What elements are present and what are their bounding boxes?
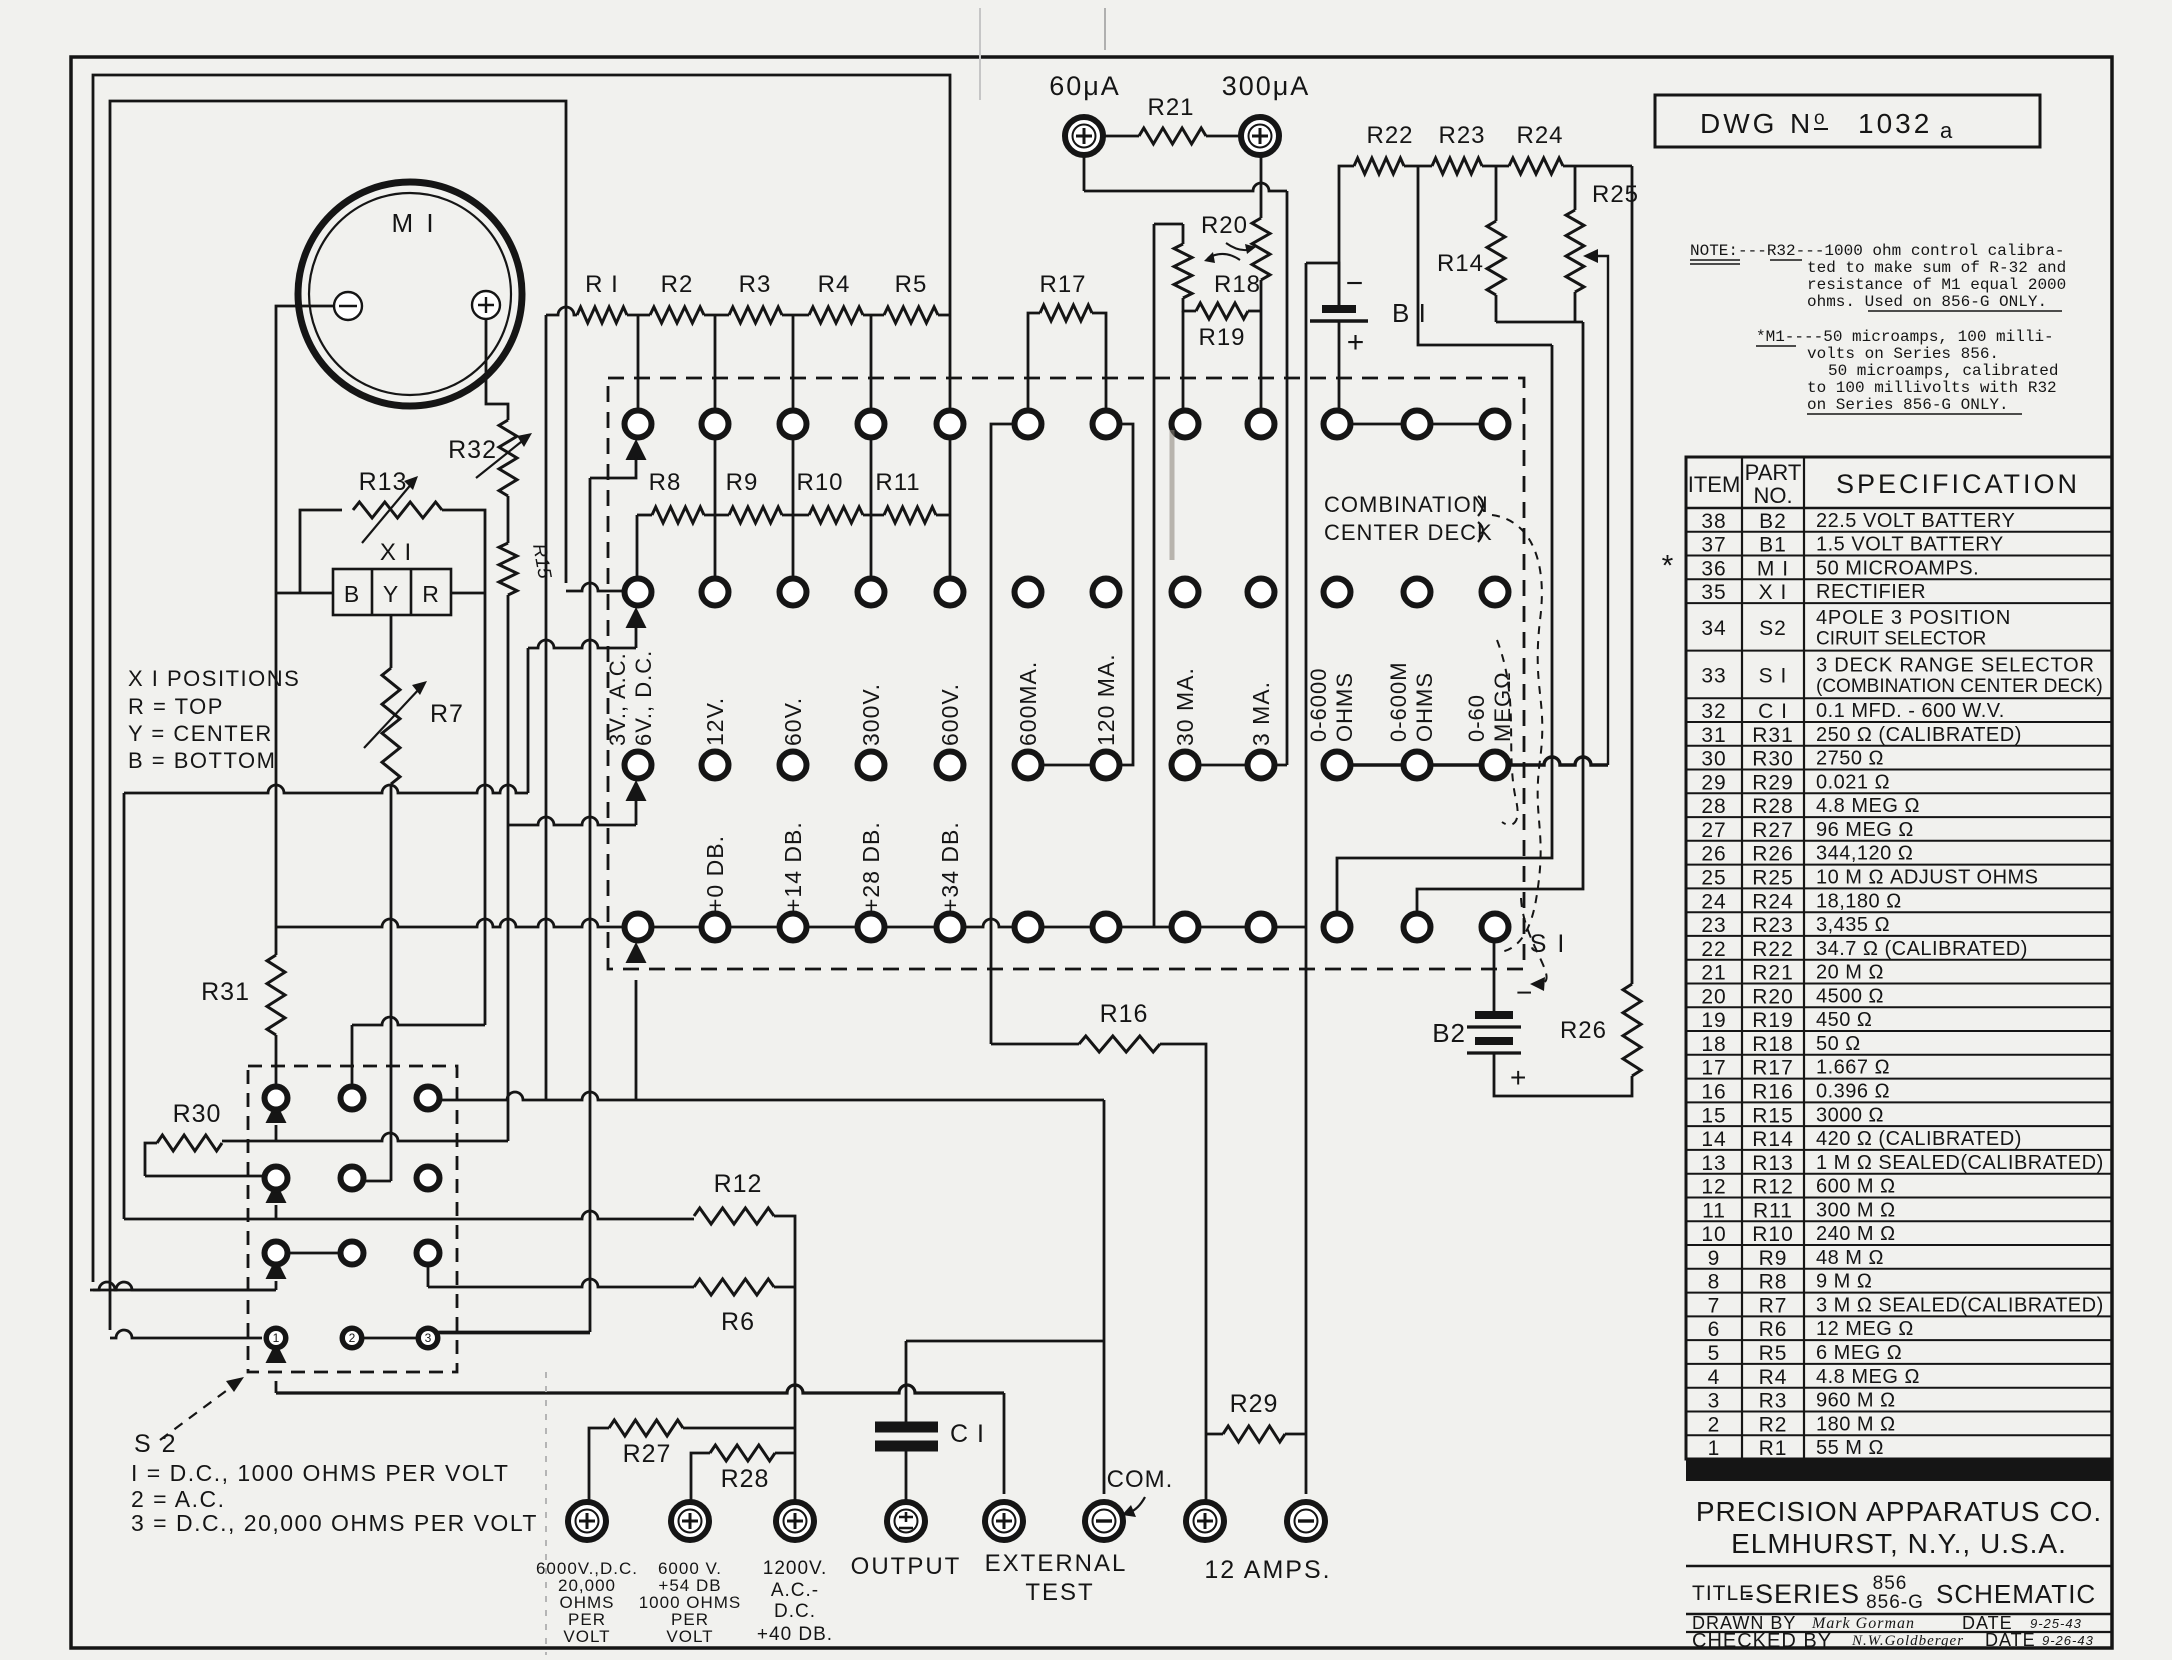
svg-text:CENTER DECK: CENTER DECK — [1324, 520, 1493, 545]
svg-text:S2: S2 — [1759, 617, 1787, 640]
svg-text:R26: R26 — [1560, 1017, 1607, 1044]
svg-text:B2: B2 — [1759, 510, 1787, 533]
svg-text:OHMS: OHMS — [1332, 672, 1357, 742]
svg-text:29: 29 — [1701, 771, 1726, 794]
wire S2 contact C row c to R6 — [427, 1267, 430, 1287]
svg-text:300 M Ω: 300 M Ω — [1816, 1199, 1896, 1221]
svg-text:R12: R12 — [1752, 1176, 1794, 1199]
svg-text:a: a — [1940, 118, 1953, 143]
svg-text:S I: S I — [1759, 664, 1788, 687]
svg-text:COMBINATION: COMBINATION — [1324, 492, 1489, 517]
scan fold marks — [979, 8, 981, 100]
svg-text:+34 DB.: +34 DB. — [937, 821, 963, 912]
resistor R29 — [1206, 1433, 1223, 1436]
rectifier X1 box — [333, 569, 451, 615]
svg-text:3000 Ω: 3000 Ω — [1816, 1104, 1884, 1126]
svg-text:17: 17 — [1701, 1057, 1726, 1080]
svg-text:CIRUIT SELECTOR: CIRUIT SELECTOR — [1816, 629, 1986, 650]
svg-text:C I: C I — [950, 1420, 985, 1448]
wire rail 124 / line A (row2 wiper bus) — [123, 793, 126, 1219]
wire S2 wiper c line — [90, 1289, 276, 1292]
wire R1-R2 junction to row1 col1 — [627, 314, 650, 317]
svg-text:R = TOP: R = TOP — [128, 694, 224, 719]
wire B1 minus to mA common — [1306, 263, 1339, 309]
svg-text:13: 13 — [1701, 1152, 1726, 1175]
svg-text:250 Ω (CALIBRATED): 250 Ω (CALIBRATED) — [1816, 724, 2022, 746]
svg-text:600 M Ω: 600 M Ω — [1816, 1176, 1896, 1198]
meter M1 — [298, 182, 522, 406]
svg-text:450 Ω: 450 Ω — [1816, 1009, 1872, 1031]
svg-text:0.021 Ω: 0.021 Ω — [1816, 771, 1890, 793]
svg-text:+0 DB.: +0 DB. — [702, 835, 728, 912]
resistor R12 — [694, 1208, 774, 1224]
resistor R16 — [991, 1043, 1079, 1046]
terminal COM — [1085, 1502, 1123, 1540]
svg-text:120 MA.: 120 MA. — [1093, 653, 1119, 746]
svg-text:R2: R2 — [1759, 1413, 1788, 1436]
wire X1 left to M1 minus rail — [276, 592, 333, 595]
svg-text:856-G: 856-G — [1866, 1592, 1924, 1613]
svg-text:volts on Series 856.: volts on Series 856. — [1807, 345, 1999, 363]
potentiometer R7 — [382, 668, 400, 784]
svg-text:1200V.: 1200V. — [763, 1558, 827, 1579]
svg-text:R23: R23 — [1752, 914, 1794, 937]
svg-text:4.8 MEG Ω: 4.8 MEG Ω — [1816, 1366, 1920, 1388]
svg-text:R3: R3 — [1759, 1390, 1788, 1413]
svg-text:R11: R11 — [875, 469, 920, 496]
svg-text:D.C.: D.C. — [774, 1601, 816, 1622]
range selector S1 dashed box — [608, 378, 1524, 969]
svg-text:N: N — [1790, 108, 1810, 139]
svg-text:R16: R16 — [1100, 1000, 1149, 1028]
svg-text:X I: X I — [1759, 581, 1788, 604]
S2 contacts row d — [264, 1326, 289, 1351]
resistor R21 — [1103, 135, 1139, 138]
svg-text:1 M Ω SEALED(CALIBRATED): 1 M Ω SEALED(CALIBRATED) — [1816, 1152, 2104, 1174]
svg-text:R31: R31 — [1752, 724, 1794, 747]
svg-text:3 MA.: 3 MA. — [1248, 681, 1274, 746]
wire S2 wiper d line — [275, 1381, 278, 1393]
svg-text:3,435 Ω: 3,435 Ω — [1816, 914, 1890, 936]
svg-text:R20: R20 — [1752, 985, 1794, 1008]
wire B1 plus to row1 col10 — [1338, 321, 1341, 411]
svg-text:R14: R14 — [1752, 1128, 1794, 1151]
svg-text:960 M Ω: 960 M Ω — [1816, 1390, 1896, 1412]
wire R20 bottom to col9 — [1260, 280, 1263, 410]
terminal 12A plus — [1186, 1502, 1224, 1540]
svg-text:6 MEG Ω: 6 MEG Ω — [1816, 1342, 1902, 1364]
svg-text:R25: R25 — [1752, 867, 1794, 890]
wire row4 col12 to B2 — [1493, 940, 1496, 1011]
svg-text:60V.: 60V. — [780, 697, 806, 746]
svg-text:4.8 MEG Ω: 4.8 MEG Ω — [1816, 795, 1920, 817]
S2 contacts row a — [265, 1087, 288, 1110]
wire mA common staple — [1154, 223, 1183, 226]
svg-text:4: 4 — [1708, 1366, 1721, 1389]
svg-text:B I: B I — [1392, 298, 1427, 328]
svg-text:36: 36 — [1701, 557, 1726, 580]
svg-text:R4: R4 — [818, 271, 851, 298]
svg-text:R3: R3 — [739, 271, 772, 298]
svg-text:35: 35 — [1701, 581, 1726, 604]
resistor R27 — [589, 1428, 609, 1502]
svg-text:4500 Ω: 4500 Ω — [1816, 985, 1884, 1007]
wire deck row4 col1 wiper line to COM rail — [428, 1092, 1104, 1100]
svg-text:1.5 VOLT BATTERY: 1.5 VOLT BATTERY — [1816, 534, 2004, 556]
svg-text:33: 33 — [1701, 664, 1726, 687]
svg-text:R24: R24 — [1752, 890, 1794, 913]
svg-text:R8: R8 — [649, 469, 682, 496]
svg-text:9-25-43: 9-25-43 — [2030, 1616, 2082, 1631]
svg-text:SCHEMATIC: SCHEMATIC — [1936, 1579, 2096, 1609]
resistor R20 — [1252, 218, 1270, 280]
svg-text:on Series 856-G ONLY.: on Series 856-G ONLY. — [1807, 396, 2009, 414]
wire S2 wiper b line — [124, 1218, 276, 1221]
wire R14 bottom joint — [1495, 295, 1498, 322]
svg-text:R28: R28 — [1752, 795, 1794, 818]
svg-text:N.W.Goldberger: N.W.Goldberger — [1851, 1633, 1964, 1649]
svg-text:+40 DB.: +40 DB. — [757, 1624, 833, 1645]
wire row4 deck bus — [276, 919, 1154, 927]
svg-text:S I: S I — [1530, 930, 1567, 958]
svg-text:30 MA.: 30 MA. — [1172, 667, 1198, 746]
battery B1 — [1338, 305, 1341, 309]
svg-text:R27: R27 — [623, 1440, 672, 1468]
wiper arrow S2 row d — [266, 1342, 287, 1363]
capacitor C1 — [875, 1422, 938, 1433]
svg-text:+: + — [1510, 1062, 1527, 1093]
svg-text:0-60: 0-60 — [1464, 694, 1489, 742]
svg-text:R5: R5 — [1759, 1342, 1788, 1365]
svg-text:48 M Ω: 48 M Ω — [1816, 1247, 1884, 1269]
svg-text:5: 5 — [1708, 1342, 1721, 1365]
svg-text:ELMHURST, N.Y., U.S.A.: ELMHURST, N.Y., U.S.A. — [1731, 1528, 2067, 1559]
svg-text:R13: R13 — [1752, 1152, 1794, 1175]
svg-text:+28 DB.: +28 DB. — [858, 821, 884, 912]
resistor R3 — [729, 307, 782, 323]
svg-text:R19: R19 — [1198, 324, 1245, 351]
svg-text:24: 24 — [1701, 890, 1726, 913]
svg-text:B: B — [344, 581, 360, 607]
svg-text:M I: M I — [391, 208, 436, 238]
wire row3 30MA-3MA link — [1185, 764, 1287, 767]
svg-text:R17: R17 — [1039, 271, 1086, 298]
svg-text:Y: Y — [383, 581, 399, 607]
svg-text:32: 32 — [1701, 700, 1726, 723]
svg-text:PRECISION APPARATUS CO.: PRECISION APPARATUS CO. — [1696, 1496, 2102, 1527]
svg-text:R18: R18 — [1214, 271, 1261, 298]
potentiometer R25 — [1566, 210, 1584, 292]
svg-text:B = BOTTOM: B = BOTTOM — [128, 748, 276, 773]
svg-text:R7: R7 — [1759, 1294, 1788, 1317]
svg-text:ted to make sum of R-32 and: ted to make sum of R-32 and — [1807, 259, 2066, 277]
wire R14 net drop to row4 col11 — [1417, 322, 1583, 911]
svg-text:96 MEG Ω: 96 MEG Ω — [1816, 819, 1914, 841]
resistor R19 — [1183, 298, 1196, 311]
wiper arrow S2 row a — [266, 1102, 287, 1123]
svg-text:X I POSITIONS: X I POSITIONS — [128, 666, 300, 691]
wire R7 down to S2 contact B row b — [390, 784, 393, 1181]
svg-text:R15: R15 — [1752, 1104, 1794, 1127]
wire S2 wiper a line from R32 rail — [507, 825, 510, 1141]
svg-text:R30: R30 — [1752, 748, 1794, 771]
S1 deck contacts row4 — [625, 914, 652, 941]
svg-text:22: 22 — [1701, 938, 1726, 961]
svg-text:30: 30 — [1701, 748, 1726, 771]
resistor R2 — [650, 307, 704, 323]
svg-text:1: 1 — [273, 1331, 280, 1345]
resistor R23 — [1432, 158, 1482, 174]
svg-text:ohms. Used on 856-G ONLY.: ohms. Used on 856-G ONLY. — [1807, 293, 2047, 311]
svg-text:25: 25 — [1701, 867, 1726, 890]
resistor R9 — [729, 507, 782, 523]
S1 deck contacts row2 — [625, 579, 652, 606]
resistor R17 — [1028, 313, 1040, 410]
svg-text:18,180 Ω: 18,180 Ω — [1816, 890, 1902, 912]
svg-text:R: R — [422, 581, 440, 607]
svg-text:R1: R1 — [1759, 1437, 1788, 1460]
terminal 300uA — [1241, 117, 1279, 155]
wire 60uA to 30MA deck — [1083, 155, 1086, 191]
resistor R1 — [546, 307, 577, 315]
svg-text:R2: R2 — [661, 271, 694, 298]
svg-text:6V., D.C.: 6V., D.C. — [631, 650, 656, 746]
wire 120MA riser — [1119, 424, 1133, 765]
wire left rail box to S2 deck d contact 1 — [110, 101, 566, 1330]
svg-text:VOLT: VOLT — [563, 1627, 610, 1646]
svg-text:50 microamps, calibrated: 50 microamps, calibrated — [1828, 362, 2058, 380]
svg-text:15: 15 — [1701, 1104, 1726, 1127]
svg-text:21: 21 — [1701, 962, 1726, 985]
svg-text:R9: R9 — [726, 469, 759, 496]
svg-text:COM.: COM. — [1107, 1466, 1174, 1493]
svg-text:R20: R20 — [1201, 212, 1248, 239]
wire R32 to R15 — [507, 496, 510, 543]
svg-text:12 MEG Ω: 12 MEG Ω — [1816, 1318, 1914, 1340]
resistor R5 — [884, 307, 938, 323]
wire B2 plus to R26 — [1494, 1053, 1632, 1096]
wire R10-R11 junction — [863, 514, 884, 517]
svg-text:M I: M I — [1757, 557, 1789, 580]
svg-text:DATE: DATE — [1985, 1630, 2036, 1650]
svg-text:R9: R9 — [1759, 1247, 1788, 1270]
resistor R31 — [267, 955, 285, 1035]
svg-text:240 M Ω: 240 M Ω — [1816, 1223, 1896, 1245]
svg-text:R24: R24 — [1516, 122, 1563, 149]
svg-text:4POLE 3 POSITION: 4POLE 3 POSITION — [1816, 607, 2011, 629]
svg-text:R21: R21 — [1752, 962, 1794, 985]
svg-text:OUTPUT: OUTPUT — [851, 1553, 962, 1580]
svg-text:3V., A.C.: 3V., A.C. — [605, 652, 630, 746]
title block — [1686, 1459, 2112, 1481]
wire R3-R4 junction — [782, 314, 809, 317]
svg-text:R26: R26 — [1752, 843, 1794, 866]
svg-text:R22: R22 — [1752, 938, 1794, 961]
svg-text:*M1----50 microamps, 100 milli: *M1----50 microamps, 100 milli- — [1756, 328, 2054, 346]
wire R22 junction drop to row4 col10 — [1337, 345, 1552, 911]
potentiometer R13 — [353, 502, 442, 518]
svg-text:0.396 Ω: 0.396 Ω — [1816, 1080, 1890, 1102]
wire R9-R10 junction — [782, 514, 809, 517]
terminal 60uA — [1065, 117, 1103, 155]
svg-text:A.C.-: A.C.- — [771, 1580, 819, 1601]
wire R15 down to row3 col1 wiper line — [507, 595, 510, 825]
svg-text:C I: C I — [1758, 700, 1788, 723]
wire row3 ohm-deck heavy bus — [1337, 757, 1608, 765]
svg-text:344,120 Ω: 344,120 Ω — [1816, 843, 1913, 865]
svg-text:3: 3 — [1708, 1390, 1721, 1413]
svg-text:8: 8 — [1708, 1271, 1721, 1294]
svg-text:VOLT: VOLT — [666, 1627, 713, 1646]
wire R18 bottom to col8 — [1182, 311, 1185, 410]
svg-text:20 M Ω: 20 M Ω — [1816, 962, 1884, 984]
svg-text:NO.: NO. — [1753, 483, 1792, 508]
wire 6000VDC wiper rail down to S2 deck d contact 3 — [589, 478, 592, 1332]
S2 contacts row c — [265, 1242, 288, 1265]
svg-text:+: + — [1347, 326, 1366, 359]
svg-text:180 M Ω: 180 M Ω — [1816, 1413, 1896, 1435]
svg-text:10: 10 — [1701, 1223, 1726, 1246]
wiper arrow row4 col1 — [626, 942, 647, 963]
S1 deck contacts row3 — [625, 752, 652, 779]
wire 60uA net riser — [1286, 191, 1289, 765]
svg-text:50 Ω: 50 Ω — [1816, 1033, 1861, 1055]
svg-text:18: 18 — [1701, 1033, 1726, 1056]
terminal 1200V — [776, 1502, 814, 1540]
svg-text:38: 38 — [1701, 510, 1726, 533]
svg-text:OHMS: OHMS — [1412, 672, 1437, 742]
svg-text:R10: R10 — [796, 469, 843, 496]
svg-text:RECTIFIER: RECTIFIER — [1816, 581, 1926, 603]
svg-text:R7: R7 — [430, 700, 464, 728]
svg-text:S 2: S 2 — [134, 1430, 178, 1458]
svg-text:R22: R22 — [1366, 122, 1413, 149]
svg-text:R30: R30 — [173, 1100, 222, 1128]
svg-text:R32: R32 — [448, 436, 497, 464]
wire R24 right to R25 and R26 rail — [1563, 165, 1632, 168]
wire COM trunk — [1103, 1099, 1106, 1102]
svg-text:3 DECK RANGE SELECTOR: 3 DECK RANGE SELECTOR — [1816, 654, 2095, 676]
drawing number box — [1655, 95, 2040, 147]
svg-text:34: 34 — [1701, 617, 1726, 640]
svg-text:2: 2 — [1708, 1413, 1721, 1436]
wiper arrow row3 col1 — [626, 780, 647, 801]
meter M1 minus terminal — [334, 292, 362, 320]
wire R26 top to R24 — [1631, 166, 1634, 984]
svg-text:PART: PART — [1745, 460, 1802, 485]
resistor R30 — [157, 1135, 222, 1151]
svg-text:R5: R5 — [895, 271, 928, 298]
svg-text:20: 20 — [1701, 985, 1726, 1008]
svg-text:420 Ω (CALIBRATED): 420 Ω (CALIBRATED) — [1816, 1128, 2022, 1150]
svg-text:DWG: DWG — [1700, 108, 1777, 139]
svg-text:0-600M: 0-600M — [1386, 661, 1411, 742]
svg-text:R8: R8 — [1759, 1271, 1788, 1294]
svg-text:9-26-43: 9-26-43 — [2042, 1633, 2094, 1648]
resistor R14 — [1487, 221, 1505, 295]
svg-text:31: 31 — [1701, 724, 1726, 747]
wire col6 trunk down to R16 — [991, 424, 1015, 1044]
svg-text:R18: R18 — [1752, 1033, 1794, 1056]
wire R22-R23 junction — [1404, 165, 1432, 168]
resistor R28 — [691, 1453, 710, 1502]
svg-text:300μA: 300μA — [1222, 71, 1311, 101]
svg-text:SPECIFICATION: SPECIFICATION — [1836, 469, 2080, 499]
wire row3 600MA-120MA link — [1028, 764, 1119, 767]
svg-text:50 MICROAMPS.: 50 MICROAMPS. — [1816, 557, 1979, 579]
meter M1 plus terminal — [472, 291, 500, 319]
resistor R24 — [1509, 158, 1563, 174]
resistor R4 — [809, 307, 863, 323]
svg-text:12V.: 12V. — [702, 697, 728, 746]
svg-text:R28: R28 — [721, 1465, 770, 1493]
svg-text:B1: B1 — [1759, 534, 1787, 557]
wiper arrow S2 row c — [266, 1258, 287, 1279]
wire col5 trunk row1-row2 — [949, 437, 952, 579]
svg-text:R29: R29 — [1752, 771, 1794, 794]
svg-text:TEST: TEST — [1025, 1579, 1094, 1606]
svg-text:R14: R14 — [1437, 250, 1484, 277]
wire R23-R24 junction — [1482, 165, 1509, 168]
battery B2 — [1475, 1011, 1513, 1019]
wire R22 left drop — [1339, 166, 1354, 305]
svg-text:NOTE:---R32---1000 ohm control: NOTE:---R32---1000 ohm control calibra- — [1690, 242, 2064, 260]
svg-text:R16: R16 — [1752, 1080, 1794, 1103]
svg-text:R13: R13 — [359, 468, 408, 496]
svg-text:X I: X I — [380, 539, 412, 566]
svg-text:*: * — [1662, 549, 1675, 582]
svg-text:10 M Ω ADJUST OHMS: 10 M Ω ADJUST OHMS — [1816, 867, 2039, 889]
svg-text:R17: R17 — [1752, 1057, 1794, 1080]
svg-text:9: 9 — [1708, 1247, 1721, 1270]
svg-text:22.5 VOLT BATTERY: 22.5 VOLT BATTERY — [1816, 510, 2015, 532]
wire S2 row b contact line — [145, 1175, 262, 1178]
svg-text:34.7 Ω (CALIBRATED): 34.7 Ω (CALIBRATED) — [1816, 938, 2028, 960]
svg-text:Y = CENTER: Y = CENTER — [128, 721, 273, 746]
svg-text:37: 37 — [1701, 534, 1726, 557]
wire R1 left rail down to deck row a col C — [545, 315, 548, 1100]
svg-text:R11: R11 — [1753, 1199, 1793, 1222]
svg-text:3: 3 — [425, 1331, 432, 1345]
wire 300uA down to R20 — [1260, 155, 1263, 218]
wire M1 minus to S2 column A rail — [276, 306, 334, 955]
svg-text:R23: R23 — [1438, 122, 1485, 149]
resistor R15 — [499, 543, 517, 595]
S2 contacts row b — [265, 1167, 288, 1190]
terminal 6000V DC — [568, 1502, 606, 1540]
svg-text:1: 1 — [1708, 1437, 1721, 1460]
svg-text:6: 6 — [1708, 1318, 1721, 1341]
wire left rail from R5 top rail (col5 trunk) — [93, 75, 950, 1282]
wiper arrow row2 col1 — [626, 607, 647, 628]
svg-text:23: 23 — [1701, 914, 1726, 937]
svg-text:+14 DB.: +14 DB. — [780, 821, 806, 912]
terminal OUTPUT — [887, 1502, 925, 1540]
svg-text:3 M Ω SEALED(CALIBRATED): 3 M Ω SEALED(CALIBRATED) — [1816, 1294, 2104, 1316]
svg-text:CHECKED BY: CHECKED BY — [1692, 1630, 1832, 1652]
svg-text:1032: 1032 — [1858, 108, 1932, 139]
svg-text:0-6000: 0-6000 — [1306, 667, 1331, 742]
svg-text:−: − — [1346, 267, 1365, 300]
svg-text:12 AMPS.: 12 AMPS. — [1204, 1556, 1331, 1584]
resistor R26 — [1623, 984, 1641, 1076]
svg-text:60μA: 60μA — [1049, 71, 1121, 101]
svg-text:3 = D.C., 20,000 OHMS PER VOLT: 3 = D.C., 20,000 OHMS PER VOLT — [131, 1510, 538, 1536]
svg-text:ITEM: ITEM — [1688, 472, 1741, 497]
wire X1-R rail down to S2 contact B row a — [484, 593, 487, 1025]
svg-text:27: 27 — [1701, 819, 1726, 842]
wire R2-R3 junction — [704, 314, 729, 317]
